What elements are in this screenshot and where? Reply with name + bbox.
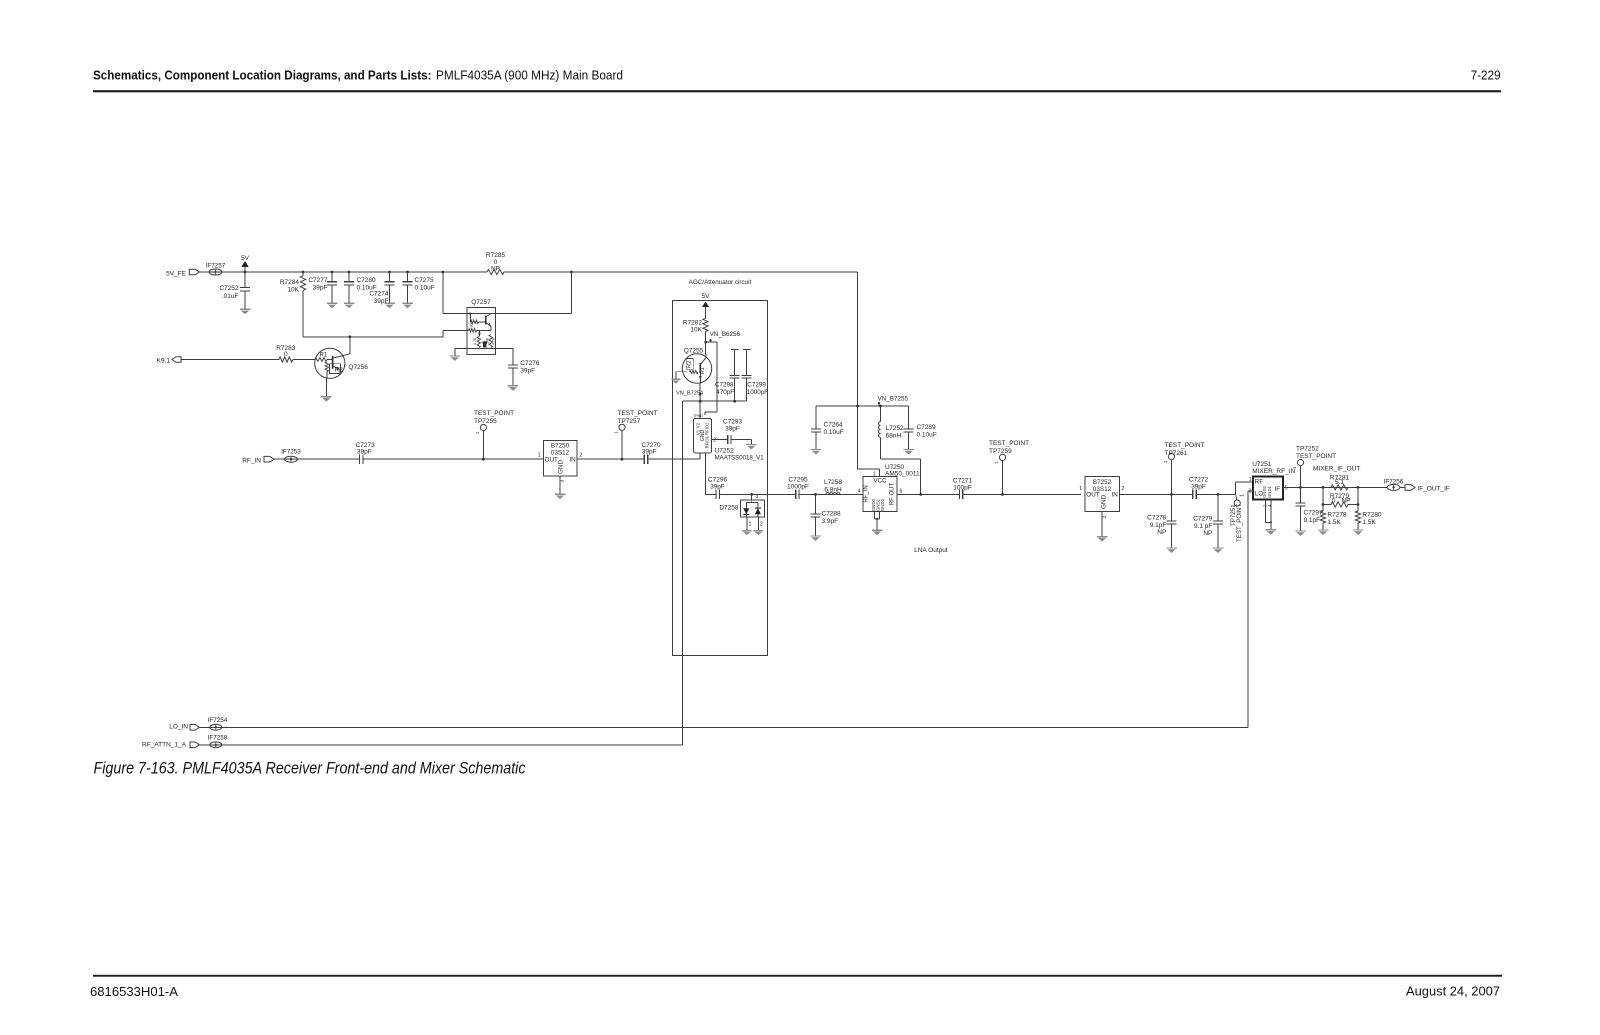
- svg-text:TP7257: TP7257: [618, 418, 641, 425]
- svg-text:RF: RF: [1255, 479, 1263, 486]
- svg-text:R2: R2: [686, 361, 692, 368]
- svg-text:C7280: C7280: [357, 277, 377, 284]
- svg-text:IF_OUT_IF: IF_OUT_IF: [1417, 485, 1450, 492]
- svg-text:C7252: C7252: [219, 285, 239, 292]
- svg-text:OUT: OUT: [1086, 492, 1099, 499]
- svg-text:1.5K: 1.5K: [1327, 519, 1341, 526]
- svg-text:39pF: 39pF: [710, 484, 725, 491]
- svg-text:TEST_POINT: TEST_POINT: [1236, 504, 1243, 542]
- svg-text:NP: NP: [1157, 529, 1166, 536]
- svg-text:TP7259: TP7259: [989, 448, 1012, 455]
- svg-text:GND: GND: [558, 460, 565, 474]
- svg-text:2: 2: [1122, 486, 1125, 492]
- svg-text:August 24, 2007: August 24, 2007: [1406, 984, 1500, 999]
- svg-text:R7284: R7284: [280, 279, 300, 286]
- svg-text:9.1 pF: 9.1 pF: [1194, 523, 1212, 530]
- svg-text:3.9pF: 3.9pF: [822, 518, 839, 525]
- svg-text:GND: GND: [1101, 495, 1108, 509]
- svg-text:39pF: 39pF: [1191, 484, 1206, 491]
- svg-text:R2: R2: [335, 366, 343, 373]
- svg-text:6816533H01-A: 6816533H01-A: [90, 985, 179, 999]
- svg-text:Q7257: Q7257: [471, 299, 491, 306]
- svg-text:LO_IN: LO_IN: [169, 723, 188, 730]
- svg-text:C7299: C7299: [747, 382, 766, 389]
- svg-text:1000pF: 1000pF: [747, 389, 769, 396]
- svg-text:0.10uF: 0.10uF: [824, 429, 844, 436]
- svg-text:AM50_0011: AM50_0011: [885, 470, 920, 477]
- svg-text:10K: 10K: [287, 287, 299, 294]
- svg-text:2: 2: [760, 521, 763, 527]
- svg-text:VN_B7254: VN_B7254: [676, 391, 703, 397]
- svg-text:100pF: 100pF: [953, 485, 971, 492]
- svg-text:C7296: C7296: [708, 476, 728, 483]
- svg-text:1: 1: [873, 471, 876, 477]
- svg-text:10K: 10K: [690, 327, 702, 334]
- svg-text:MIXER_IF_OUT: MIXER_IF_OUT: [1313, 466, 1360, 473]
- svg-text:C7297: C7297: [1304, 509, 1324, 516]
- svg-text:PMLF4035A (900 MHz) Main Board: PMLF4035A (900 MHz) Main Board: [436, 68, 623, 83]
- svg-text:1000pF: 1000pF: [787, 484, 809, 491]
- svg-text:2: 2: [713, 437, 716, 443]
- svg-text:C7295: C7295: [788, 476, 808, 483]
- svg-text:2: 2: [580, 452, 583, 458]
- svg-text:RF_ATTN_1_A: RF_ATTN_1_A: [142, 742, 187, 749]
- svg-text:68nH: 68nH: [886, 432, 902, 439]
- svg-text:TP7252: TP7252: [1296, 445, 1319, 452]
- svg-text:C7288: C7288: [822, 510, 842, 517]
- svg-text:IN: IN: [569, 457, 576, 464]
- svg-text:3: 3: [756, 494, 759, 500]
- svg-text:IF7254: IF7254: [208, 717, 228, 724]
- svg-text:R7280: R7280: [1362, 511, 1382, 518]
- svg-text:U7251: U7251: [1252, 461, 1272, 468]
- svg-text:TP7261: TP7261: [1165, 450, 1188, 457]
- svg-text:C7276: C7276: [520, 360, 540, 367]
- svg-text:6.8nH: 6.8nH: [824, 486, 842, 493]
- svg-text:VCC: VCC: [873, 478, 887, 485]
- svg-text:D7258: D7258: [719, 505, 739, 512]
- svg-text:TP7255: TP7255: [474, 418, 497, 425]
- svg-text:300K: 300K: [470, 319, 474, 328]
- svg-text:5V: 5V: [241, 255, 250, 262]
- svg-text:Q7256: Q7256: [348, 364, 368, 371]
- svg-text:0: 0: [284, 351, 288, 358]
- svg-text:39pF: 39pF: [357, 449, 372, 456]
- svg-text:5V: 5V: [702, 293, 711, 300]
- svg-text:R7282: R7282: [683, 319, 703, 326]
- svg-text:C7278: C7278: [1147, 514, 1167, 521]
- svg-text:GND2: GND2: [880, 498, 885, 511]
- svg-text:C7277: C7277: [308, 277, 328, 284]
- svg-text:39pF: 39pF: [520, 368, 535, 375]
- svg-text:1: 1: [1249, 477, 1252, 483]
- svg-text:5.1: 5.1: [1335, 479, 1344, 486]
- svg-text:39pF: 39pF: [642, 448, 657, 455]
- svg-text:C7298: C7298: [715, 382, 734, 389]
- svg-text:R7278: R7278: [1327, 511, 1347, 518]
- svg-text:1: 1: [749, 521, 752, 527]
- svg-text:39pF: 39pF: [374, 298, 389, 305]
- svg-text:TEST_POINT: TEST_POINT: [1296, 453, 1336, 460]
- svg-text:RF OUT: RF OUT: [890, 483, 896, 506]
- svg-text:GND1: GND1: [1267, 486, 1272, 498]
- svg-text:RF_IN: RF_IN: [242, 457, 261, 464]
- svg-text:TEST_POINT: TEST_POINT: [618, 410, 658, 417]
- svg-text:LNA Output: LNA Output: [914, 547, 948, 554]
- svg-text:39pF: 39pF: [725, 426, 740, 433]
- svg-text:L7258: L7258: [824, 479, 842, 486]
- svg-text:0.10uF: 0.10uF: [917, 431, 937, 438]
- svg-text:1: 1: [1240, 494, 1246, 497]
- svg-text:C7279: C7279: [1193, 515, 1213, 522]
- svg-text:OUT: OUT: [545, 457, 558, 464]
- svg-text:TEST_POINT: TEST_POINT: [474, 410, 514, 417]
- svg-text:470pF: 470pF: [716, 389, 734, 396]
- svg-text:C7264: C7264: [824, 421, 844, 428]
- svg-text:Schematics, Component Location: Schematics, Component Location Diagrams,…: [93, 68, 432, 83]
- svg-text:3: 3: [1249, 489, 1252, 495]
- svg-text:7-229: 7-229: [1471, 68, 1501, 83]
- svg-text:C7293: C7293: [723, 418, 743, 425]
- svg-text:B7250: B7250: [551, 443, 570, 450]
- svg-text:9.1pF: 9.1pF: [1150, 522, 1167, 529]
- svg-text:3: 3: [1102, 516, 1108, 519]
- svg-text:39pF: 39pF: [313, 285, 328, 292]
- svg-text:4.7K: 4.7K: [473, 337, 477, 345]
- svg-text:1.5K: 1.5K: [1362, 519, 1376, 526]
- svg-text:C7289: C7289: [917, 424, 937, 431]
- svg-text:AGC/Attenuator circuit: AGC/Attenuator circuit: [689, 279, 752, 286]
- svg-text:RF_IN: RF_IN: [864, 485, 870, 502]
- svg-text:6: 6: [900, 488, 903, 494]
- svg-text:TEST_POINT: TEST_POINT: [1165, 442, 1205, 449]
- svg-text:TEST_POINT: TEST_POINT: [989, 440, 1029, 447]
- svg-text:L7252: L7252: [886, 425, 904, 432]
- svg-text:NP: NP: [1341, 497, 1350, 504]
- svg-text:K9.1: K9.1: [157, 358, 171, 365]
- svg-text:C7274: C7274: [369, 290, 389, 297]
- svg-text:IF: IF: [1275, 486, 1281, 493]
- svg-text:1: 1: [538, 452, 541, 458]
- svg-text:RFIO1 RFIO2: RFIO1 RFIO2: [705, 422, 710, 448]
- svg-text:IF7257: IF7257: [206, 262, 226, 269]
- svg-text:9.1pF: 9.1pF: [1304, 517, 1321, 524]
- svg-text:10K: 10K: [486, 337, 490, 344]
- svg-text:0.10uF: 0.10uF: [415, 285, 435, 292]
- svg-text:NP: NP: [1203, 530, 1212, 537]
- svg-text:VN_B6256: VN_B6256: [710, 331, 741, 338]
- svg-text:.01uF: .01uF: [222, 293, 239, 300]
- svg-text:5: 5: [1285, 485, 1288, 491]
- svg-text:IF7253: IF7253: [281, 449, 301, 456]
- svg-text:MAATSS0018_V1: MAATSS0018_V1: [715, 454, 765, 461]
- svg-text:VN_B7255: VN_B7255: [878, 396, 909, 403]
- svg-text:C7271: C7271: [953, 477, 973, 484]
- svg-text:4.7K: 4.7K: [492, 337, 496, 345]
- svg-text:IN: IN: [1111, 492, 1118, 499]
- svg-text:4: 4: [858, 488, 861, 494]
- svg-text:R1: R1: [700, 367, 706, 374]
- svg-text:Figure 7-163. PMLF4035A Receiv: Figure 7-163. PMLF4035A Receiver Front-e…: [94, 760, 527, 778]
- svg-text:MIXER_RF_IN: MIXER_RF_IN: [1252, 468, 1295, 475]
- svg-text:5V_FE: 5V_FE: [166, 270, 187, 277]
- svg-text:C7272: C7272: [1189, 476, 1209, 483]
- svg-text:TPAD: TPAD: [693, 414, 703, 418]
- svg-text:0: 0: [1332, 497, 1336, 504]
- svg-text:Q7255: Q7255: [684, 348, 704, 355]
- svg-text:1: 1: [1079, 486, 1082, 492]
- svg-text:C7275: C7275: [415, 277, 435, 284]
- svg-text:B7252: B7252: [1093, 479, 1112, 486]
- svg-text:IF7258: IF7258: [208, 735, 228, 742]
- svg-text:NP: NP: [491, 265, 500, 272]
